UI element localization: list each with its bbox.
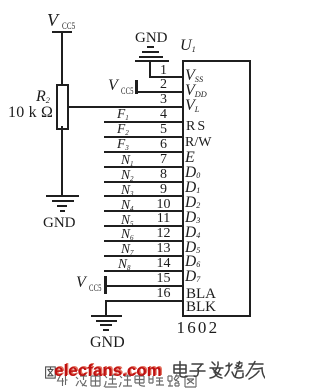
wire pin16 drop to ground <box>105 300 107 316</box>
watermark hanzi zi (dark) <box>190 364 205 376</box>
pin label R/W <box>185 136 211 150</box>
signal label N4 <box>121 198 134 212</box>
ground top (inverted, to pin 1) <box>147 46 154 48</box>
power VCC5 top-left bar <box>52 31 72 33</box>
pin number 2 <box>150 78 177 92</box>
wire pin 6 <box>104 151 184 153</box>
signal label N3 <box>121 183 134 197</box>
pin number 3 <box>150 93 177 107</box>
caption fake hanzi row (gray): ye jing lian jie dian lu tu <box>75 374 199 388</box>
pin number 4 <box>150 108 177 122</box>
watermark hanzi fa (dark) <box>210 362 223 378</box>
wire pin 9 <box>104 195 184 197</box>
pin number 1 <box>150 64 177 78</box>
label GND left <box>43 216 76 231</box>
label R2 <box>36 89 50 105</box>
pin number 16 <box>150 287 177 301</box>
pin label RS <box>186 120 207 134</box>
pin number 7 <box>150 153 177 167</box>
watermark elecfans.com (red) <box>54 362 162 379</box>
pin label D1 <box>185 180 200 196</box>
wire pin 15 <box>104 285 184 287</box>
power VCC5 top-left label <box>47 11 58 29</box>
pin label BLA <box>186 287 216 302</box>
node tick pin 2 <box>135 80 138 94</box>
label GND top <box>135 31 168 46</box>
ground bottom <box>91 315 122 317</box>
pin number 11 <box>150 212 177 226</box>
pin number 9 <box>150 183 177 197</box>
signal label N7 <box>121 242 134 256</box>
pin label VDD <box>185 83 207 99</box>
wire R2 to ground <box>61 126 63 196</box>
wire pin 7 <box>104 166 184 168</box>
watermark hanzi shao (dark) <box>225 362 243 379</box>
wire pin 2 <box>135 91 184 93</box>
label 10 kOhm <box>8 105 53 121</box>
resistor R2 <box>56 84 69 130</box>
pin label VSS <box>185 68 203 84</box>
pin label BLK <box>186 300 216 315</box>
pin label E <box>185 150 195 166</box>
watermark hanzi dian (dark) <box>171 360 265 382</box>
wire pin 12 <box>104 240 184 242</box>
pin label D4 <box>185 225 200 241</box>
signal label N2 <box>121 168 134 182</box>
wire pin 4 <box>104 121 184 123</box>
label VCC5 at pin 15 <box>76 275 86 291</box>
wire pin 13 <box>104 255 184 257</box>
signal label N1 <box>121 153 134 167</box>
IC U1 block outline <box>182 60 251 317</box>
pin number 14 <box>150 257 177 271</box>
wire ground stem to pin 1 <box>149 61 151 77</box>
pin number 15 <box>150 272 177 286</box>
wire pin 16 <box>105 300 184 302</box>
label GND bottom <box>90 335 125 351</box>
node tick pin 15 <box>104 276 107 294</box>
pin number 12 <box>150 227 177 241</box>
pin label D7 <box>185 269 200 285</box>
wire VCC5 to R2 <box>61 32 63 85</box>
pin number 6 <box>150 138 177 152</box>
signal label F2 <box>117 122 129 136</box>
wire pin 5 <box>104 136 184 138</box>
wire pin 8 <box>104 181 184 183</box>
pin label D2 <box>185 195 200 211</box>
ground left (below R2) <box>46 195 79 197</box>
pin number 10 <box>150 198 177 212</box>
signal label N5 <box>121 213 134 227</box>
label 1602 <box>177 319 220 336</box>
label VCC5 at pin 2 <box>108 78 118 94</box>
pin number 8 <box>150 168 177 182</box>
pin label D0 <box>185 165 200 181</box>
wire pin 3 (from R2 wiper) <box>67 106 184 108</box>
pin number 13 <box>150 242 177 256</box>
signal label N6 <box>121 227 134 241</box>
caption char 4x (gray) <box>56 374 68 387</box>
caption figure char TU (gray) <box>45 366 56 379</box>
wire pin 11 <box>104 225 184 227</box>
label U1 <box>180 38 196 54</box>
signal label F3 <box>117 137 129 151</box>
pin number 5 <box>150 123 177 137</box>
watermark hanzi you (dark) <box>246 362 265 380</box>
signal label N8 <box>118 257 131 271</box>
wire pin 10 <box>104 210 184 212</box>
pin label D6 <box>185 254 200 270</box>
wire pin 1 <box>149 76 184 78</box>
signal label F1 <box>117 107 129 121</box>
pin label VL <box>185 98 199 114</box>
pin label D5 <box>185 240 200 256</box>
pin label D3 <box>185 210 200 226</box>
wire pin 14 <box>104 270 184 272</box>
